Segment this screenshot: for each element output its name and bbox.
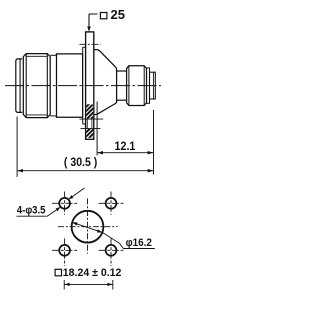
svg-text:4-φ3.5: 4-φ3.5 [17,204,46,216]
svg-text:φ16.2: φ16.2 [126,237,152,249]
svg-text:25: 25 [111,8,126,22]
svg-text:18.24 ± 0.12: 18.24 ± 0.12 [63,267,122,279]
svg-text:( 30.5 ): ( 30.5 ) [64,155,97,169]
svg-text:12.1: 12.1 [115,139,136,153]
